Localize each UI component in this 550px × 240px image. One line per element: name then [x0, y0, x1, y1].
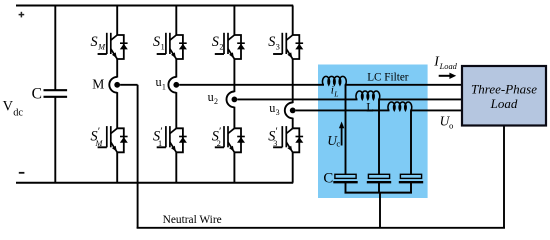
- wire: leg 4 collector feed from + rail: [292, 6, 294, 36]
- svg-text:LC Filter: LC Filter: [367, 71, 409, 83]
- wire: phase u3 output to LC filter: [296, 109, 390, 111]
- svg-text:S: S: [91, 34, 98, 50]
- svg-text:u: u: [208, 90, 214, 104]
- svg-text:u: u: [156, 75, 162, 89]
- wire: leg 2 node to lower collector: [175, 92, 177, 128]
- arrow ILoad (load current): [439, 73, 457, 79]
- wire: leg 4 node to lower collector: [292, 118, 294, 129]
- wire: neutral from node M: [120, 84, 138, 86]
- wire: phase u1 output to LC filter: [179, 84, 324, 86]
- LC filter background box: [318, 65, 428, 199]
- svg-text:3: 3: [273, 139, 277, 148]
- wire: phase u3 after inductor to load: [410, 109, 462, 111]
- transistor S'3 (IGBT with freewheeling diode): [273, 126, 303, 152]
- wire: phase u2 output to LC filter: [237, 98, 357, 100]
- svg-text:S: S: [153, 34, 160, 50]
- node u3 loop marker: [285, 103, 293, 119]
- capacitor Cf1 (filter): [333, 174, 357, 192]
- wire: leg 4 lower emitter to - rail: [292, 152, 294, 182]
- wire: filter cap branch 1: [345, 85, 347, 175]
- svg-text:S: S: [268, 34, 275, 50]
- svg-text:2: 2: [214, 97, 218, 106]
- svg-text:Load: Load: [490, 96, 518, 111]
- wire: leg 1 collector feed from + rail: [116, 6, 118, 36]
- wire: leg 3 node to lower collector: [233, 107, 235, 129]
- wire: neutral riser to load: [503, 126, 505, 228]
- capacitor Cf2 (filter): [367, 174, 391, 192]
- svg-text:Load: Load: [439, 62, 458, 71]
- plus terminal label: [19, 12, 25, 18]
- wire: leg 3 lower emitter to - rail: [233, 152, 235, 182]
- transistor S2 (IGBT with freewheeling diode): [215, 33, 245, 59]
- inductor L2 (filter coil): [356, 91, 380, 99]
- wire: leg 1 upper emitter to output node: [116, 59, 118, 78]
- node u1 loop marker: [168, 77, 176, 93]
- svg-text:u: u: [269, 101, 275, 115]
- svg-text:1: 1: [158, 139, 162, 148]
- wire: positive DC rail (top): [16, 5, 293, 7]
- node u2 loop marker: [226, 92, 234, 108]
- svg-text:3: 3: [276, 43, 280, 52]
- wire: leg 2 upper emitter to output node: [175, 59, 177, 78]
- svg-text:S: S: [212, 34, 219, 50]
- svg-text:C: C: [32, 85, 42, 102]
- svg-text:L: L: [333, 90, 338, 99]
- svg-text:C: C: [323, 171, 333, 187]
- wire: filter cap branch 3: [410, 110, 412, 174]
- capacitor Cf3 (filter): [399, 174, 423, 192]
- minus terminal label: [19, 172, 25, 174]
- wire: phase u2 after inductor to load: [378, 98, 462, 100]
- transistor SM (IGBT with freewheeling diode): [98, 33, 128, 59]
- wire: phase u1 after inductor to load: [345, 84, 462, 86]
- wire: leg 3 collector feed from + rail: [233, 6, 235, 36]
- wire: negative DC rail (bottom): [16, 182, 293, 184]
- svg-text:c: c: [336, 139, 340, 149]
- wire: leg 2 lower emitter to - rail: [175, 152, 177, 182]
- transistor S'M (IGBT with freewheeling diode): [98, 126, 128, 152]
- svg-text:o: o: [449, 120, 454, 130]
- svg-text:3: 3: [276, 108, 280, 117]
- transistor S'2 (IGBT with freewheeling diode): [215, 126, 245, 152]
- svg-text:1: 1: [161, 43, 165, 52]
- arrow Uc (capacitor voltage): [339, 122, 344, 146]
- wire: leg 3 upper emitter to output node: [233, 59, 235, 92]
- svg-text:2: 2: [219, 43, 223, 52]
- inductor L1 (filter coil): [322, 76, 346, 84]
- svg-text:Neutral Wire: Neutral Wire: [163, 214, 222, 226]
- wire: leg 2 collector feed from + rail: [175, 6, 177, 36]
- wire: leg 1 lower emitter to - rail: [116, 152, 118, 182]
- svg-text:2: 2: [217, 139, 221, 148]
- svg-text:dc: dc: [13, 108, 23, 119]
- transistor S1 (IGBT with freewheeling diode): [157, 33, 187, 59]
- svg-text:M: M: [95, 139, 104, 148]
- load box: Three-Phase Load: [462, 66, 546, 126]
- svg-text:M: M: [97, 43, 106, 52]
- wire: filter cap branch 2: [378, 99, 380, 174]
- transistor S'1 (IGBT with freewheeling diode): [157, 126, 187, 152]
- inductor L3 (filter coil): [388, 102, 412, 110]
- node M loop marker: [109, 77, 117, 93]
- wire: filter neutral drop: [379, 193, 381, 228]
- svg-text:M: M: [92, 77, 104, 92]
- transistor S3 (IGBT with freewheeling diode): [273, 33, 303, 59]
- wire: filter cap common bus: [345, 192, 413, 194]
- svg-text:V: V: [3, 99, 14, 115]
- svg-text:L: L: [366, 101, 374, 115]
- wire: leg 1 node to lower collector: [116, 92, 118, 128]
- wire: leg 4 upper emitter to output node: [292, 59, 294, 103]
- svg-text:1: 1: [162, 82, 166, 91]
- svg-text:Three-Phase: Three-Phase: [471, 82, 537, 97]
- capacitor C (DC link): [44, 6, 68, 183]
- wire: neutral bottom run: [137, 227, 505, 229]
